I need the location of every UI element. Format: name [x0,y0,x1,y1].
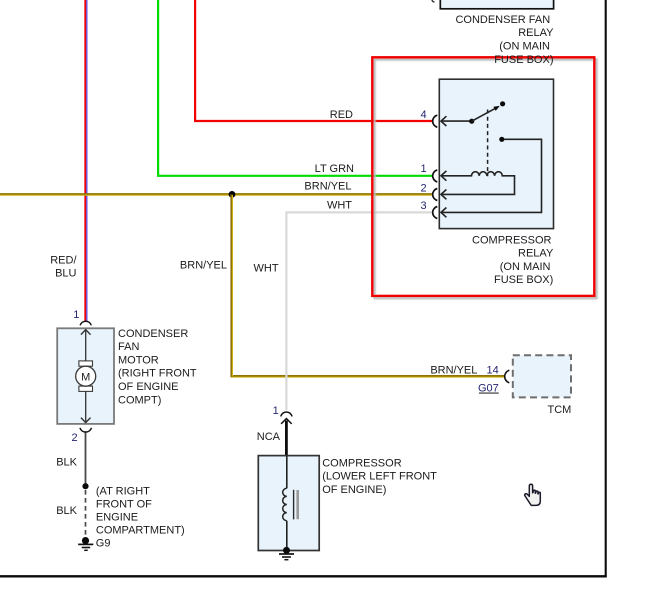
red highlight box [372,57,594,296]
wire LT GRN [158,0,432,176]
svg-text:BLK: BLK [56,505,77,517]
relay pin 1 arc [433,170,438,182]
junction dot BRN/YEL [229,191,236,198]
relay pin 4 arc [433,115,438,127]
compressor core bar gray [296,490,299,519]
svg-text:NCA: NCA [257,431,281,443]
svg-text:RED: RED [330,109,353,121]
switch blade with arrowhead [472,106,500,121]
wire WHT [286,212,431,410]
wire BLK solid [85,432,87,487]
svg-text:(LOWER LEFT FRONT: (LOWER LEFT FRONT [322,471,437,483]
compressor caption [322,457,437,496]
mouse cursor [525,484,541,505]
svg-text:RED/: RED/ [50,254,77,266]
svg-text:ENGINE: ENGINE [96,511,138,523]
switch lower contact dot [499,137,504,142]
relay pin 3 arrow [441,208,446,218]
svg-text:CONDENSER: CONDENSER [118,328,188,340]
compressor pin 1 arc [281,412,292,416]
TCM box dashed [513,355,571,397]
motor caption [118,328,197,407]
svg-text:2: 2 [71,432,77,444]
svg-text:BRN/YEL: BRN/YEL [430,364,477,376]
compressor box [258,456,319,551]
svg-text:(AT RIGHT: (AT RIGHT [96,485,150,497]
svg-text:G9: G9 [96,537,111,549]
compressor pin arrow [281,419,292,424]
condenser fan relay pin arc remnant [432,0,435,2]
wire RED [195,0,432,121]
motor brush top [79,361,93,366]
svg-text:4: 4 [420,109,426,121]
svg-text:(ON MAIN: (ON MAIN [499,41,550,53]
motor internal shaft with arrows [81,330,91,423]
wire BLK dashed [85,490,87,537]
compressor core bar dark [293,490,295,520]
relay pin 1 arrow [441,171,446,181]
svg-text:3: 3 [420,200,426,212]
svg-text:RELAY: RELAY [518,248,554,260]
svg-text:TCM: TCM [547,404,571,416]
svg-text:BRN/YEL: BRN/YEL [180,260,227,272]
motor pin 2 arc [80,428,92,432]
condenser fan motor box [57,328,114,424]
svg-text:COMPRESSOR: COMPRESSOR [472,234,552,246]
switch dashed actuator line [487,110,489,177]
svg-text:14: 14 [487,364,499,376]
connector label G07 [478,383,499,395]
svg-text:FUSE BOX): FUSE BOX) [494,54,553,66]
splice dot BLK [82,483,88,489]
svg-text:WHT: WHT [327,200,352,212]
motor circle M [76,366,96,386]
contact to pin3 wire [441,139,542,212]
svg-text:BLK: BLK [56,457,77,469]
ground G9 [78,537,93,550]
svg-text:RELAY: RELAY [518,27,554,39]
svg-text:OF ENGINE): OF ENGINE) [322,484,386,496]
svg-text:M: M [81,371,90,383]
motor pin 1 arc [80,321,91,325]
motor brush bottom [79,386,93,391]
relay pin 4 arrow and switch common [441,116,474,126]
compressor relay caption [472,234,554,286]
svg-text:COMPT): COMPT) [118,394,161,406]
wire BRN/YEL main horizontal [0,193,432,196]
svg-text:1: 1 [420,163,426,175]
frame bottom border [0,575,607,577]
svg-text:LT GRN: LT GRN [315,163,354,175]
compressor ground [279,547,294,560]
svg-text:BLU: BLU [55,268,76,280]
svg-text:FUSE BOX): FUSE BOX) [494,274,553,286]
compressor coil [283,488,287,520]
svg-text:FAN: FAN [118,341,139,353]
compressor relay U-box [439,79,553,228]
wire RED/BLU vertical [85,0,87,321]
condenser fan relay caption [455,14,554,66]
frame right border [605,0,607,577]
svg-text:BRN/YEL: BRN/YEL [304,180,351,192]
relay coil and pin1/pin2 wiring [441,172,515,195]
relay pin 2 arc [433,189,438,201]
TCM pin arc [505,370,510,383]
switch upper contact dot [500,101,505,106]
wire label RED/BLU [50,254,77,279]
compressor internal wire top [286,456,288,489]
svg-text:MOTOR: MOTOR [118,354,159,366]
ground location caption [96,485,185,536]
wire NCA [285,421,288,456]
svg-text:2: 2 [420,182,426,194]
svg-text:1: 1 [273,405,279,417]
svg-text:COMPARTMENT): COMPARTMENT) [96,525,185,537]
compressor internal wire bottom [286,521,288,551]
svg-text:COMPRESSOR: COMPRESSOR [322,457,402,469]
svg-text:WHT: WHT [254,262,279,274]
wire BRN/YEL to TCM [232,195,505,378]
svg-text:OF ENGINE: OF ENGINE [118,381,179,393]
svg-text:CONDENSER FAN: CONDENSER FAN [455,14,550,26]
relay pin 2 arrow [441,190,446,200]
relay pin 3 arc [433,207,438,219]
svg-text:(RIGHT FRONT: (RIGHT FRONT [118,368,197,380]
svg-text:1: 1 [73,309,79,321]
svg-text:FRONT OF: FRONT OF [96,498,152,510]
condenser fan relay box (partial) [440,0,553,9]
svg-text:(ON MAIN: (ON MAIN [500,261,551,273]
